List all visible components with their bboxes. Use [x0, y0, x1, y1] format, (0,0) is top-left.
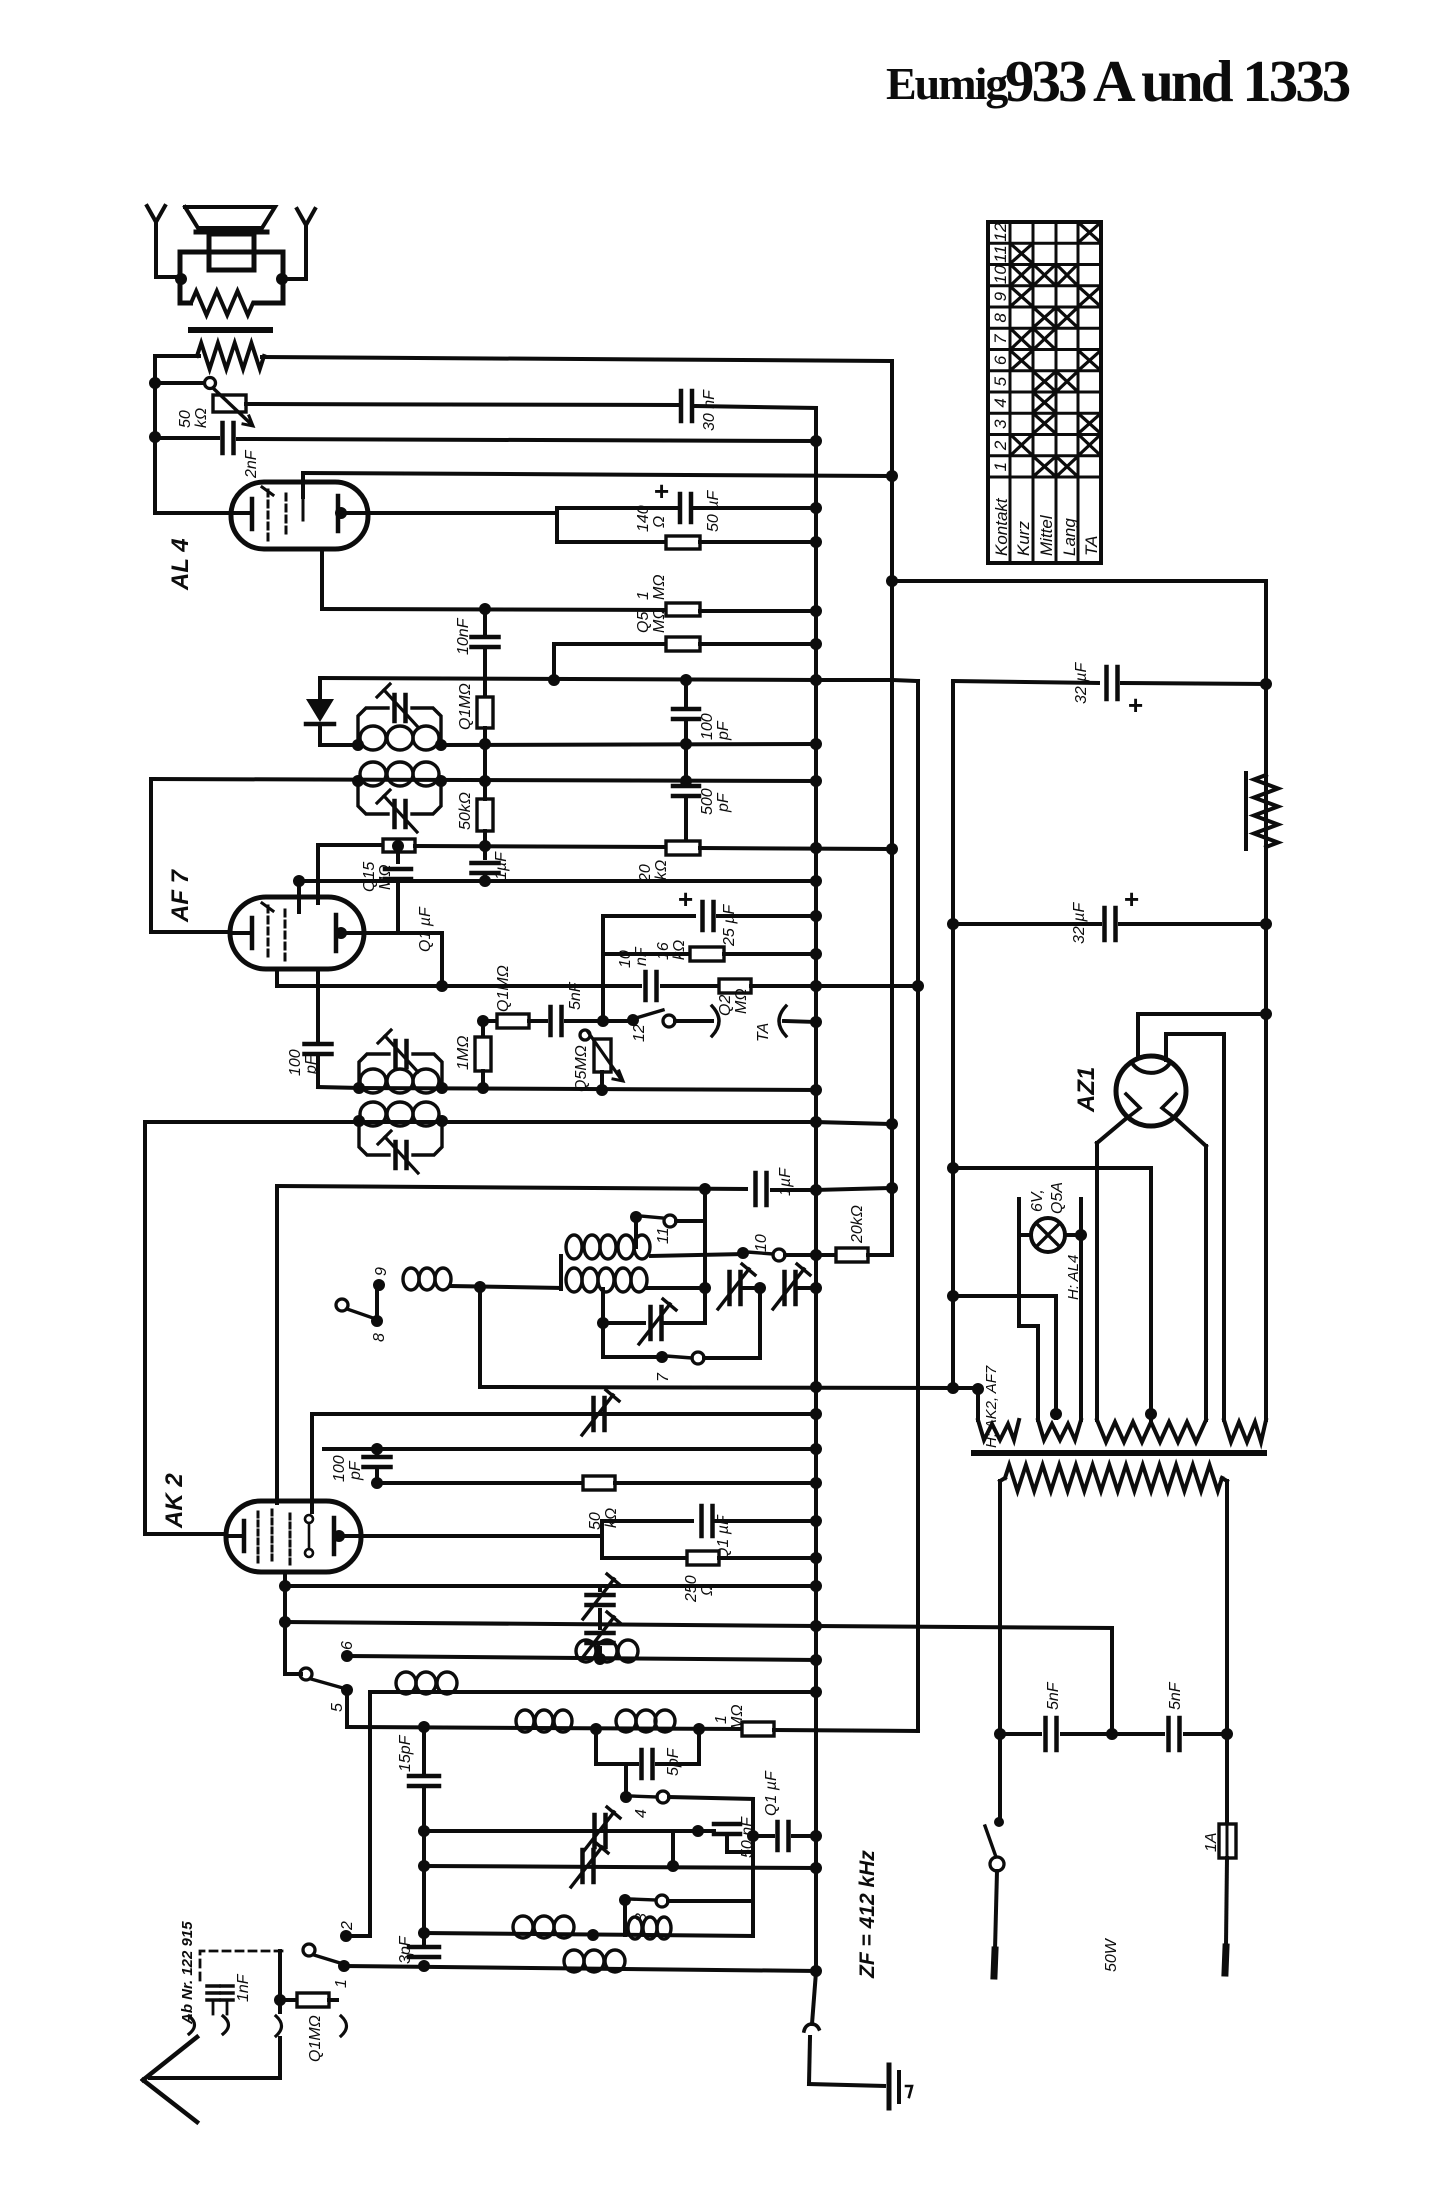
- resistor 0.5 MOhm: [666, 637, 700, 651]
- wire vert 480: [478, 1287, 482, 1387]
- transformer core bar: [191, 327, 270, 333]
- capacitor 3pF: [409, 1945, 439, 1950]
- svg-text:100: 100: [331, 1455, 348, 1482]
- wire antenna lead: [278, 2038, 282, 2078]
- coil IF 2: [360, 762, 386, 786]
- wire 100pF drop: [684, 680, 688, 705]
- node 953-924: [947, 918, 959, 930]
- switch contact 11: [630, 1211, 642, 1223]
- wire row 1866: [424, 1866, 816, 1868]
- wire 1836 to bus: [793, 1834, 816, 1838]
- wire AK2 loop vert: [600, 1521, 604, 1558]
- svg-text:50W: 50W: [1103, 1937, 1120, 1972]
- wire coil9 to coil2: [451, 1286, 561, 1288]
- trimmer tuning osc: [592, 1815, 597, 1847]
- wire row 1622: [285, 1622, 816, 1626]
- node 953-1296: [947, 1290, 959, 1302]
- lamp jog: [1019, 1324, 1038, 1328]
- svg-text:4: 4: [633, 1809, 650, 1818]
- svg-text:Q5A: Q5A: [1049, 1182, 1066, 1214]
- wire 5pF loop left: [594, 1729, 598, 1764]
- wire 140ohm row: [557, 540, 666, 544]
- node 603-1021: [597, 1015, 609, 1027]
- wire 1021 a: [529, 1019, 546, 1023]
- node 1090 bus: [810, 1084, 822, 1096]
- terminal 9: [373, 1279, 385, 1291]
- resistor field coil bar: [1244, 773, 1248, 849]
- tube AL4 envelope: [231, 482, 368, 549]
- resistor 0.1 MOhm series: [497, 1014, 529, 1028]
- node 1414 bus: [810, 1408, 822, 1420]
- wire sw5 drop: [345, 1690, 349, 1727]
- wire vert 918: [916, 681, 920, 1731]
- switch contact table grid: [988, 222, 1101, 563]
- tube AZ1 envelope: [1116, 1056, 1186, 1126]
- capacitor 32uF upper: [1104, 667, 1109, 699]
- wire 100pF to 744: [684, 720, 688, 744]
- plug pin left: [994, 1950, 995, 1976]
- wire row 1168: [953, 1166, 1151, 1170]
- svg-text:32 µF: 32 µF: [1073, 662, 1090, 704]
- node 1387-953: [947, 1382, 959, 1394]
- wire AL4 cathode drop: [320, 549, 324, 609]
- wire 424 b: [422, 1788, 426, 1944]
- winding heater AK2 AF7: [978, 1420, 1019, 1440]
- wire row 1836: [753, 1834, 773, 1838]
- node 986 bus: [810, 980, 822, 992]
- svg-text:TA: TA: [755, 1023, 772, 1042]
- wire row 1387: [480, 1387, 953, 1388]
- svg-text:Kurz: Kurz: [1014, 521, 1033, 556]
- resistor 1 MOhm vertical: [481, 1028, 485, 1037]
- winding HT secondary: [1224, 1420, 1266, 1442]
- svg-text:pF: pF: [303, 1054, 320, 1075]
- wire coil1 left vert: [559, 1256, 563, 1289]
- svg-text:Q5: Q5: [635, 612, 652, 633]
- node lamp right: [1075, 1229, 1087, 1241]
- wire mains switch lead: [998, 1734, 1002, 1820]
- node 781 junction: [479, 775, 491, 787]
- plug pin right: [1225, 1947, 1226, 1973]
- node left 383: [149, 377, 161, 389]
- wire corner 953: [951, 681, 955, 1389]
- svg-text:+: +: [1128, 690, 1143, 720]
- svg-text:2nF: 2nF: [243, 449, 260, 479]
- svg-text:kΩ: kΩ: [193, 408, 210, 428]
- node 1227-1734: [1221, 1728, 1233, 1740]
- node IF4 left: [353, 1115, 365, 1127]
- tube AF7 cathode: [230, 931, 248, 935]
- IF can 4 outline: [359, 1121, 389, 1155]
- lamp vertical right: [1079, 1199, 1083, 1420]
- tube AK2 cathode: [226, 1534, 240, 1538]
- capacitor 5nF mains a: [1043, 1718, 1048, 1750]
- tube AL4 cathode: [231, 511, 248, 515]
- capacitor 30nF: [679, 391, 684, 421]
- wire 1122 to 892: [816, 1122, 892, 1124]
- svg-text:6: 6: [339, 1641, 356, 1650]
- trimmer tuning ant: [580, 1850, 585, 1882]
- node 424-1727: [418, 1721, 430, 1733]
- wire AK2 g4 drop: [275, 1186, 279, 1503]
- wire AF7 osc grid lead: [316, 969, 320, 1040]
- svg-text:30 nF: 30 nF: [701, 389, 718, 431]
- potentiometer 50kOhm circle: [205, 378, 216, 389]
- resistor 0.1 MOhm antenna: [280, 1998, 297, 2002]
- wire primary right lead: [1222, 1478, 1227, 1481]
- svg-text:MΩ: MΩ: [729, 1705, 746, 1731]
- node centertap: [1145, 1408, 1157, 1420]
- wire sw11 tap: [634, 1217, 638, 1247]
- node 603-1323: [597, 1317, 609, 1329]
- svg-text:Q1MΩ: Q1MΩ: [457, 683, 474, 730]
- trimmer 1414: [591, 1398, 596, 1430]
- node 686-680: [680, 674, 692, 686]
- node 744 junction: [479, 738, 491, 750]
- wire row 1586: [285, 1584, 816, 1588]
- svg-text:kΩ: kΩ: [671, 940, 688, 960]
- wire AF7 bottom lead: [275, 969, 279, 986]
- wire 32uF row 682: [953, 681, 1098, 683]
- wire vert 1224: [1222, 1034, 1226, 1420]
- svg-text:+: +: [678, 884, 693, 914]
- svg-text:MΩ: MΩ: [733, 989, 750, 1015]
- IF can 3 trimmer: [393, 1041, 398, 1067]
- wire B+ screen long row: [320, 678, 816, 680]
- wire lamp leads: [1019, 1233, 1031, 1237]
- node IF3 right: [436, 1082, 448, 1094]
- wire left cathode drop: [153, 356, 157, 513]
- wire pot wiper run: [246, 404, 677, 405]
- switch contact 7: [656, 1351, 668, 1363]
- capacitor 2nF: [155, 436, 218, 440]
- svg-text:11: 11: [991, 245, 1010, 263]
- tube AL4 screen lead: [302, 497, 305, 520]
- wire row 1089: [359, 1088, 816, 1090]
- node 1255 bus: [810, 1249, 822, 1261]
- node 481-1021: [477, 1015, 489, 1027]
- wire sw3 to vert753: [668, 1899, 753, 1903]
- wire row 1521: [602, 1519, 692, 1523]
- node 1000-1734: [994, 1728, 1006, 1740]
- wire 0.5M to bus: [700, 642, 816, 646]
- svg-text:Q5MΩ: Q5MΩ: [573, 1045, 590, 1092]
- wire vert 705: [703, 1189, 707, 1323]
- trimmer band b: [782, 1272, 787, 1304]
- trimmer 1nF a: [207, 1984, 219, 1988]
- lamp vertical left: [1017, 1199, 1021, 1326]
- node 10nF top: [479, 603, 491, 615]
- IF can 1 outline: [358, 708, 388, 745]
- svg-text:Ω: Ω: [651, 516, 668, 528]
- speaker terminal fork right: [297, 209, 315, 225]
- svg-text:25 µF: 25 µF: [721, 904, 738, 947]
- node 892-581: [886, 575, 898, 587]
- speaker terminal fork left: [147, 206, 165, 222]
- svg-text:15pF: 15pF: [397, 1734, 414, 1772]
- svg-text:10nF: 10nF: [455, 617, 472, 655]
- tube AF7 anode: [334, 915, 339, 951]
- resistor 0.2 MOhm: [719, 979, 751, 993]
- trimmer band a: [727, 1272, 732, 1304]
- node 1558 bus: [810, 1552, 822, 1564]
- node 673-1866: [667, 1860, 679, 1872]
- tube AK2 envelope: [226, 1501, 361, 1572]
- node IF4 right: [436, 1115, 448, 1127]
- wire 0.5M row: [554, 642, 666, 646]
- svg-text:16: 16: [655, 942, 672, 960]
- svg-text:Lang: Lang: [1060, 518, 1079, 556]
- node 1288 bus: [810, 1282, 822, 1294]
- wire TA lead a: [675, 1019, 712, 1023]
- jack b: [223, 2016, 229, 2034]
- svg-text:Q1MΩ: Q1MΩ: [495, 965, 512, 1012]
- wire row 1734 a: [1000, 1732, 1040, 1736]
- node 1626 bus: [810, 1620, 822, 1632]
- wire row 1692: [370, 1690, 816, 1694]
- wire 30nF to bus corner: [696, 406, 816, 408]
- wire 32uF lower to 1266: [1120, 922, 1266, 926]
- svg-text:MΩ: MΩ: [651, 575, 668, 601]
- wire 32uF row 924: [953, 922, 1100, 926]
- wire AK2 cathode drop: [283, 1572, 287, 1674]
- coil IF 4: [360, 1102, 386, 1126]
- wire AK2 grid left L: [143, 1122, 147, 1534]
- capacitor 50nF: [714, 1822, 740, 1827]
- wire 500pF section: [684, 744, 688, 781]
- node 744 bus: [810, 738, 822, 750]
- wire mains plug right: [1226, 1858, 1227, 1945]
- svg-text:5: 5: [991, 376, 1010, 386]
- diode detector: [306, 699, 334, 722]
- wire AK2 g lead 312: [310, 1414, 314, 1512]
- node 699-1729: [693, 1723, 705, 1735]
- node 424-1966: [418, 1960, 430, 1972]
- wire AZ1 plate lead a: [1138, 1012, 1266, 1016]
- wire anode loop vertical: [555, 508, 559, 542]
- wire vert 424: [422, 1727, 426, 1772]
- svg-text:2: 2: [991, 440, 1010, 451]
- fuse 1A: [1219, 1824, 1236, 1858]
- node 760-1288: [754, 1282, 766, 1294]
- node 892-476: [886, 470, 898, 482]
- ground chassis: [887, 2065, 892, 2108]
- svg-text:Q1 µF: Q1 µF: [417, 906, 434, 952]
- svg-text:6: 6: [991, 355, 1010, 365]
- wire row 1188 top: [277, 1186, 746, 1189]
- wire cathode to AL4: [155, 511, 231, 515]
- wire speaker left lead: [156, 275, 180, 279]
- node speaker frame left: [175, 273, 187, 285]
- wire vert 370: [368, 1692, 372, 1936]
- wire 318 drop to AF7: [316, 845, 320, 903]
- node IF3 left: [353, 1082, 365, 1094]
- svg-text:AL 4: AL 4: [167, 538, 194, 591]
- wire row 1729: [347, 1727, 742, 1729]
- node 705-1190: [699, 1183, 711, 1195]
- IF can 3 outline: [359, 1054, 389, 1088]
- svg-text:5: 5: [329, 1703, 346, 1712]
- svg-text:11: 11: [655, 1227, 672, 1244]
- svg-text:kΩ: kΩ: [603, 1508, 620, 1528]
- svg-text:H: AL4: H: AL4: [1065, 1255, 1082, 1300]
- wire 10nF drop: [483, 609, 487, 636]
- wire 1uF to bus: [772, 1188, 816, 1192]
- svg-text:100: 100: [287, 1049, 304, 1076]
- wire AF7 anode out: [341, 931, 442, 935]
- svg-text:Mittel: Mittel: [1037, 514, 1056, 556]
- wire AF7 g2 lead: [297, 881, 301, 912]
- wire cathode resistor row: [322, 609, 666, 610]
- svg-text:10: 10: [991, 265, 1010, 284]
- svg-text:7: 7: [991, 334, 1010, 344]
- capacitor 0.1uF AK2: [699, 1506, 704, 1536]
- node 986 918: [912, 980, 924, 992]
- capacitor 5nF mains b: [1166, 1718, 1171, 1750]
- node 1022 bus: [810, 1016, 822, 1028]
- wire sw4 to vert753: [669, 1797, 753, 1799]
- coil ant input: [564, 1950, 584, 1972]
- wire AL4 g2 lead: [301, 473, 305, 497]
- capacitor 100pF AK2: [375, 1449, 379, 1454]
- svg-text:7: 7: [655, 1372, 672, 1382]
- node 483-1088: [477, 1082, 489, 1094]
- speaker frame: [180, 252, 283, 303]
- wire mains plug left: [995, 1871, 997, 1950]
- coil osc e: [628, 1917, 642, 1939]
- node 377-1449: [371, 1443, 383, 1455]
- wire vert 892 upper: [890, 361, 894, 1124]
- coil osc b: [516, 1710, 534, 1732]
- tube AF7 anode pin: [335, 927, 347, 939]
- terminal 6: [341, 1650, 353, 1662]
- tube AK2 injection grid: [305, 1515, 313, 1523]
- capacitor 1uF: [472, 861, 499, 866]
- wire heater G1 lead: [953, 1386, 978, 1390]
- wire 1Mosc to 918: [774, 1730, 918, 1731]
- wire row 1121 left: [145, 1120, 816, 1124]
- tube AK2 anode: [332, 1518, 337, 1554]
- capacitor 100pF gridleak: [305, 1042, 332, 1047]
- node 554-680: [548, 674, 560, 686]
- tube AL4 anode pin: [335, 507, 347, 519]
- node IF2 left: [352, 775, 364, 787]
- winding AZ1 filament: [1097, 1420, 1206, 1442]
- svg-text:933 A und 1333: 933 A und 1333: [1005, 48, 1350, 114]
- node 705-1288: [699, 1282, 711, 1294]
- terminal 2: [340, 1930, 352, 1942]
- svg-text:AF 7: AF 7: [167, 868, 194, 923]
- wire trimmer to bus: [799, 1286, 816, 1290]
- svg-text:9: 9: [373, 1267, 390, 1276]
- speaker magnet: [209, 234, 254, 270]
- wire 1Mohm to bus: [700, 609, 816, 613]
- wire TA lead b: [784, 1021, 816, 1022]
- svg-text:10: 10: [753, 1234, 770, 1252]
- wire row 846 mid: [415, 846, 666, 847]
- node 846 junction: [479, 840, 491, 852]
- wire g2 row 881: [299, 879, 816, 883]
- jack d: [341, 2016, 347, 2036]
- node 593-1935: [587, 1929, 599, 1941]
- svg-text:1µF: 1µF: [493, 851, 510, 880]
- resistor 1 MOhm: [666, 603, 700, 616]
- wire 32uF to 1266: [1122, 683, 1266, 684]
- svg-text:1: 1: [713, 1715, 730, 1724]
- node IF2 right: [435, 775, 447, 787]
- capacitor 15pF: [409, 1774, 439, 1779]
- svg-text:2: 2: [339, 1921, 356, 1931]
- wire hop to corner: [809, 2037, 810, 2084]
- svg-text:Q1MΩ: Q1MΩ: [307, 2015, 324, 2062]
- capacitor 25uF electrolytic: [700, 902, 705, 930]
- resistor field coil zigzag: [1254, 775, 1278, 847]
- node 781 bus: [810, 775, 822, 787]
- resistor output transformer primary: [197, 343, 264, 369]
- coil osc d: [513, 1916, 533, 1938]
- capacitor 50uF electrolytic: [678, 494, 683, 522]
- crossover hop: [804, 2024, 819, 2031]
- wire row 1967: [344, 1966, 816, 1971]
- node 953-1168: [947, 1162, 959, 1174]
- wire AZ1 filament right: [1174, 1117, 1206, 1146]
- node 596-1729: [590, 1723, 602, 1735]
- node 686-781: [680, 775, 692, 787]
- coil IF5 primary: [566, 1235, 582, 1259]
- potentiometer 50kOhm body: [213, 395, 246, 412]
- wire bus to hop: [812, 1972, 816, 2024]
- svg-text:pF: pF: [715, 792, 732, 813]
- wire AK2 anode out: [339, 1534, 602, 1538]
- resistor 16 kOhm: [690, 947, 724, 961]
- svg-text:140: 140: [635, 505, 652, 532]
- wire 986 to 918: [751, 984, 918, 988]
- node 881 bus: [810, 875, 822, 887]
- node 1836 bus: [810, 1830, 822, 1842]
- potentiometer 0.5 MOhm body: [594, 1039, 611, 1072]
- svg-text:pF: pF: [347, 1460, 364, 1481]
- resistor 140 Ohm: [666, 536, 700, 549]
- tube AK2 grids dashed: [257, 1512, 260, 1562]
- svg-text:Eumig: Eumig: [886, 58, 1008, 109]
- wire 16k loop vertical: [601, 916, 605, 1021]
- svg-text:ZF = 412 kHz: ZF = 412 kHz: [856, 1850, 879, 1979]
- node 1188-892: [886, 1182, 898, 1194]
- svg-text:250: 250: [683, 1575, 700, 1603]
- wire row 1558: [602, 1556, 687, 1560]
- switch contact 3: [619, 1894, 631, 1906]
- wire AL4 g2 row: [303, 473, 892, 476]
- svg-text:+: +: [1124, 884, 1139, 914]
- diode detector lead: [318, 678, 322, 699]
- node 285-1586: [279, 1580, 291, 1592]
- resistor 1 MOhm osc: [742, 1722, 774, 1736]
- wire 1190 to 892: [816, 1188, 892, 1190]
- tube AF7 envelope: [230, 897, 364, 969]
- wire speaker right lead: [283, 277, 306, 281]
- IF can 1 trimmer cap: [392, 695, 397, 721]
- IF can 4 trimmer: [393, 1142, 398, 1168]
- resistor 0.15 MOhm: [383, 839, 415, 852]
- svg-text:5nF: 5nF: [1167, 1681, 1184, 1710]
- svg-text:4: 4: [991, 398, 1010, 407]
- capacitor 500pF: [684, 781, 688, 785]
- coil osc a: [396, 1672, 416, 1694]
- node 1266-684: [1260, 678, 1272, 690]
- svg-text:20kΩ: 20kΩ: [849, 1205, 866, 1244]
- jack a: [189, 2016, 195, 2034]
- tube AZ1 anodes: [1126, 1094, 1140, 1115]
